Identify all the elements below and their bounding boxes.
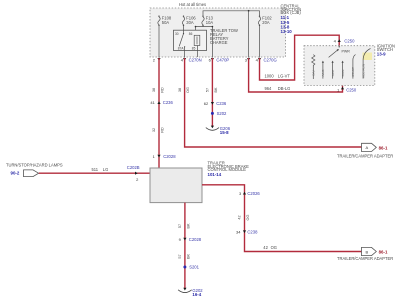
svg-text:S202: S202	[217, 111, 227, 116]
svg-text:13-10: 13-10	[281, 29, 293, 34]
connector C250 pin 4	[334, 38, 356, 43]
svg-text:C470P: C470P	[216, 58, 229, 63]
wire label 964 DB-LG	[265, 86, 291, 91]
ignition switch contact RUN	[341, 61, 345, 79]
wire label 511 LG	[92, 167, 109, 172]
svg-text:LG-VT: LG-VT	[278, 74, 291, 79]
svg-text:1000: 1000	[265, 74, 275, 79]
wire rail node to pin 3	[248, 11, 250, 58]
svg-text:42: 42	[238, 215, 242, 219]
svg-text:BK: BK	[186, 254, 190, 260]
svg-text:964: 964	[265, 86, 273, 91]
svg-text:LG: LG	[103, 167, 108, 172]
relay label text	[210, 28, 238, 45]
svg-text:C270G: C270G	[264, 58, 277, 63]
connector C250 pin 1	[337, 87, 357, 93]
trailer electronic brake control module U1	[150, 168, 202, 203]
CJB label block	[281, 3, 302, 34]
svg-text:C236: C236	[163, 100, 174, 105]
svg-text:Hot at all times: Hot at all times	[179, 2, 206, 7]
pin 3 at CJB	[245, 57, 250, 62]
wire fuse F106 to relay 30	[183, 25, 185, 30]
svg-text:20A: 20A	[262, 20, 270, 25]
svg-text:57: 57	[206, 88, 210, 92]
svg-text:A/LO: A/LO	[321, 69, 325, 77]
svg-text:16-4: 16-4	[192, 292, 201, 297]
wire circuit 511 LG to brake module pin 2	[39, 172, 150, 174]
trailer/camper adapter tag A (upper)	[362, 143, 388, 151]
wire label 57 BK	[206, 87, 218, 93]
svg-text:OG: OG	[186, 87, 190, 93]
ground G202	[178, 288, 203, 297]
ignition switch PWR node and wiper	[329, 46, 351, 57]
ignition switch label	[377, 43, 395, 56]
ignition switch contact ACC RUN	[361, 49, 370, 79]
svg-text:TRAILER/CAMPER ADAPTER: TRAILER/CAMPER ADAPTER	[337, 256, 393, 261]
svg-text:START: START	[351, 67, 355, 77]
svg-text:10A: 10A	[206, 20, 214, 25]
svg-text:BK: BK	[186, 223, 190, 229]
pin 6 C470P	[209, 57, 230, 62]
connector C238 pin 34	[236, 230, 258, 235]
svg-text:85: 85	[192, 47, 196, 51]
svg-text:9: 9	[179, 237, 182, 242]
wire label 57 BK upper	[178, 223, 190, 229]
wire fuse F13 to node and coil	[195, 25, 214, 57]
svg-text:42: 42	[263, 245, 268, 250]
svg-text:41: 41	[150, 100, 155, 105]
svg-text:C2026: C2026	[247, 191, 260, 196]
ignition switch contact START	[351, 55, 355, 79]
pin 4 C270N	[181, 57, 202, 62]
ignition switch highlight	[363, 53, 373, 61]
svg-text:87A: 87A	[178, 47, 185, 51]
svg-text:C270N: C270N	[189, 58, 202, 63]
connector C236 pin 62	[204, 101, 227, 106]
turn/stop/hazard lamps reference	[6, 163, 63, 177]
wire label 38 RD	[152, 87, 164, 93]
wire rail joining F13 and F102 tops	[203, 11, 260, 16]
svg-text:90-2: 90-2	[11, 171, 20, 176]
svg-text:C2028: C2028	[189, 237, 202, 242]
svg-text:TURN/STOP/HAZARD LAMPS: TURN/STOP/HAZARD LAMPS	[6, 163, 63, 168]
fuse F13 10A	[202, 16, 214, 26]
wire label 42 OG vertical	[238, 215, 250, 221]
wire label 32 RD	[152, 127, 164, 133]
svg-text:TRAILER/CAMPER ADAPTER: TRAILER/CAMPER ADAPTER	[337, 154, 393, 159]
svg-text:13-9: 13-9	[377, 51, 386, 56]
svg-text:PWR: PWR	[342, 50, 351, 54]
relay K (trailer tow relay battery charge)	[174, 30, 207, 57]
svg-text:BK: BK	[214, 87, 218, 93]
connector C236 pin 41	[150, 100, 173, 105]
module label	[208, 160, 250, 176]
svg-text:2: 2	[136, 177, 139, 182]
svg-text:34: 34	[236, 230, 241, 235]
wire label 38 OG	[178, 87, 190, 93]
connector C2026 pin 3	[239, 191, 260, 196]
svg-text:S201: S201	[189, 265, 199, 270]
svg-text:C250: C250	[344, 38, 355, 43]
svg-text:RD: RD	[160, 87, 164, 93]
svg-text:86: 86	[189, 32, 193, 36]
svg-text:511: 511	[92, 167, 99, 172]
wire label 42 OG horizontal	[263, 245, 277, 250]
wire circuit 1000 LG-VT from pin 4 C270G to ignition switch pin 4	[260, 35, 340, 80]
svg-text:2: 2	[153, 57, 156, 62]
svg-text:RUN: RUN	[341, 70, 345, 77]
svg-text:C2028: C2028	[163, 154, 176, 159]
connector C202B pin 2	[127, 165, 140, 182]
svg-text:OG: OG	[271, 245, 277, 250]
svg-text:C202B: C202B	[127, 165, 140, 170]
fuse F102 20A	[258, 16, 272, 26]
svg-text:B/U: B/U	[312, 70, 316, 75]
svg-text:50A: 50A	[162, 20, 170, 25]
svg-text:C250: C250	[346, 88, 357, 93]
ignition switch (dashed box)	[304, 46, 375, 86]
ignition switch contact B/U (resistor)	[312, 55, 316, 79]
svg-text:62: 62	[204, 101, 209, 106]
svg-text:DB-LG: DB-LG	[278, 86, 291, 91]
svg-text:RD: RD	[160, 127, 164, 133]
svg-text:30: 30	[175, 32, 179, 36]
svg-text:101-14: 101-14	[208, 172, 222, 177]
wire label 57 BK lower	[178, 254, 190, 260]
wire circuit 42 OG module output to trailer/camper adapter	[202, 185, 362, 252]
svg-text:86-1: 86-1	[379, 250, 388, 255]
svg-text:C236: C236	[216, 101, 227, 106]
wire fuse F108 to pin 2	[158, 25, 160, 57]
ground G206	[206, 126, 231, 135]
central junction box (dashed, hot at all times)	[150, 2, 286, 57]
svg-text:15-8: 15-8	[220, 130, 229, 135]
trailer/camper adapter tag B (lower)	[362, 247, 388, 255]
svg-text:32: 32	[152, 128, 156, 132]
connector C2028 pin 1 at module top	[153, 154, 177, 159]
splice S201	[183, 265, 199, 270]
svg-text:C238: C238	[247, 230, 258, 235]
svg-text:4: 4	[334, 38, 337, 43]
wire circuit 57 BK from pin 6 to ground G206	[211, 58, 213, 126]
svg-text:1: 1	[153, 154, 156, 159]
svg-text:57: 57	[178, 224, 182, 228]
wire circuit 57 BK module ground leg	[184, 203, 186, 289]
fuse F106 30A	[182, 16, 196, 26]
splice S202	[211, 111, 227, 116]
svg-text:86-1: 86-1	[379, 145, 388, 150]
fuse F108 50A	[158, 16, 172, 26]
svg-text:38: 38	[178, 88, 182, 92]
wire circuit 38 OG from relay 87 to trailer/camper adapter	[185, 58, 362, 147]
svg-text:ACC RUN: ACC RUN	[361, 64, 365, 78]
svg-text:57: 57	[178, 254, 182, 258]
svg-text:A: A	[365, 145, 368, 150]
node on rail feeding pin 3	[248, 10, 250, 12]
connector C2028 pin 9	[179, 237, 202, 242]
svg-text:38: 38	[152, 88, 156, 92]
wire label 1000 LG-VT	[265, 74, 291, 79]
ignition switch contact A/LO	[321, 61, 325, 79]
wire circuit 964 DB-LG from pin 3 to ignition switch pin 1	[249, 58, 343, 92]
svg-text:CHARGE: CHARGE	[210, 40, 228, 45]
wire fuse F102 to pin 4	[259, 25, 261, 57]
pin 2 at CJB	[153, 57, 161, 62]
svg-text:B: B	[365, 249, 368, 254]
svg-text:ACC: ACC	[331, 69, 335, 76]
svg-text:3: 3	[239, 191, 242, 196]
wire circuit 38 RD from pin 2 to brake module pin 1	[158, 58, 160, 168]
pin 4 C270G	[256, 57, 277, 62]
svg-text:30A: 30A	[186, 20, 194, 25]
svg-text:OG: OG	[246, 215, 250, 221]
ignition switch contact ACC	[331, 61, 335, 79]
